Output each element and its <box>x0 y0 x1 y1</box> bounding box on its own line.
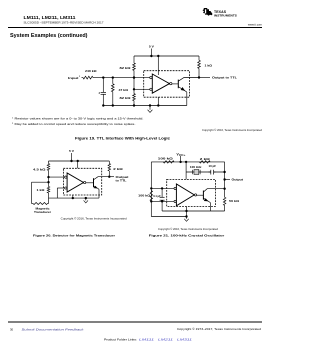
svg-text:LM311: LM311 <box>177 338 193 342</box>
svg-text:Resistor values shown are for: Resistor values shown are for a 0- to 30… <box>15 117 144 121</box>
svg-text:0.1 µF: 0.1 µF <box>153 194 161 198</box>
svg-text:LM111, LM211, LM311: LM111, LM211, LM311 <box>24 15 76 21</box>
svg-text:SLCS005D –SEPTEMBER 1973–REVIS: SLCS005D –SEPTEMBER 1973–REVISED MARCH 2… <box>24 21 105 25</box>
svg-text:System Examples (continued): System Examples (continued) <box>10 33 88 39</box>
svg-text:240 kΩ: 240 kΩ <box>85 69 97 73</box>
svg-text:Output: Output <box>116 175 129 179</box>
svg-text:50 kΩ: 50 kΩ <box>229 199 240 203</box>
svg-text:to TTL: to TTL <box>116 178 127 182</box>
svg-text:LM111: LM111 <box>139 338 155 342</box>
svg-text:47 kΩ: 47 kΩ <box>119 88 129 92</box>
svg-text:5 V: 5 V <box>149 45 154 49</box>
svg-text:100 kΩ: 100 kΩ <box>158 157 174 161</box>
svg-text:100 kHz: 100 kHz <box>190 165 202 169</box>
svg-text:Transducer: Transducer <box>34 210 51 214</box>
svg-text:10 pF: 10 pF <box>209 164 217 168</box>
svg-text:4.5 kΩ: 4.5 kΩ <box>33 168 47 172</box>
svg-text:82 kΩ: 82 kΩ <box>120 96 132 100</box>
svg-text:Figure 21. 100-kHz Crystal Osc: Figure 21. 100-kHz Crystal Oscillator <box>149 234 226 238</box>
svg-text:2 kΩ: 2 kΩ <box>113 167 124 171</box>
svg-text:CC+: CC+ <box>179 154 186 157</box>
svg-text:1 kΩ: 1 kΩ <box>205 64 213 68</box>
svg-text:May be added to control speed: May be added to control speed and reduce… <box>15 122 136 126</box>
svg-text:Copyright © 2016, Texas Instru: Copyright © 2016, Texas Instruments Inco… <box>202 129 263 132</box>
svg-text:5 V: 5 V <box>69 149 74 153</box>
svg-text:100 kΩ: 100 kΩ <box>138 194 151 198</box>
svg-text:INSTRUMENTS: INSTRUMENTS <box>214 14 237 18</box>
svg-text:Magnetic: Magnetic <box>36 207 51 211</box>
svg-text:Figure 19. TTL Interface With: Figure 19. TTL Interface With High-Level… <box>75 137 170 141</box>
svg-text:Output to TTL: Output to TTL <box>212 76 237 80</box>
svg-text:1 kΩ: 1 kΩ <box>37 188 46 192</box>
svg-text:Submit Documentation Feedback: Submit Documentation Feedback <box>22 327 85 331</box>
svg-text:Figure 20. Detector for Magnet: Figure 20. Detector for Magnetic Transdu… <box>33 233 116 237</box>
svg-text:Output: Output <box>232 178 244 182</box>
svg-text:www.ti.com: www.ti.com <box>248 23 263 27</box>
svg-text:Input: Input <box>68 76 79 80</box>
svg-text:Copyright © 1973–2017, Texas I: Copyright © 1973–2017, Texas Instruments… <box>177 328 262 331</box>
svg-text:Product Folder Links:: Product Folder Links: <box>104 338 137 342</box>
svg-text:82 kΩ: 82 kΩ <box>120 66 132 70</box>
svg-text:2 kΩ: 2 kΩ <box>200 157 211 161</box>
svg-text:30: 30 <box>10 327 14 331</box>
svg-text:LM211: LM211 <box>158 338 174 342</box>
